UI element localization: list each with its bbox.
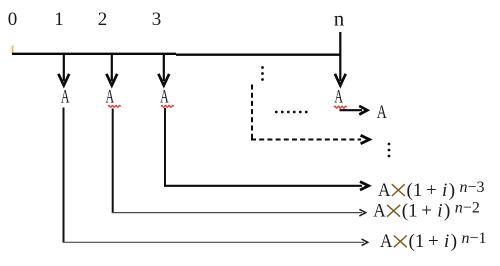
arrow down at 1	[58, 54, 69, 85]
red squiggle under An	[334, 106, 347, 108]
thin arrow from 2-line to formula n-2	[112, 209, 366, 216]
horizontal dots ......	[275, 111, 308, 114]
svg-text:A: A	[377, 102, 387, 123]
svg-text:A: A	[378, 180, 391, 201]
svg-text:A: A	[106, 87, 115, 108]
svg-text:+: +	[428, 231, 439, 252]
thick arrow from 3-line to formula n-3	[164, 182, 369, 190]
svg-text:2: 2	[98, 9, 108, 30]
svg-text:n: n	[334, 7, 345, 31]
right arrow from A(n)	[340, 106, 368, 115]
svg-text:1: 1	[54, 9, 64, 30]
thin arrow from 1-line to formula n-1	[63, 239, 368, 246]
timeline segment right	[176, 54, 341, 56]
svg-text:A: A	[160, 87, 169, 108]
arrow down at 3	[158, 54, 169, 85]
vertical ellipsis left	[261, 66, 264, 81]
formula A x (1+i)^(n-3)	[378, 179, 485, 201]
red squiggle under A2	[108, 105, 121, 107]
svg-text:): )	[444, 201, 450, 222]
svg-text:0: 0	[8, 9, 18, 30]
svg-text:n−3: n−3	[460, 179, 485, 196]
svg-text:i: i	[437, 201, 442, 222]
svg-text:+: +	[426, 180, 437, 201]
vertical line from A1	[63, 108, 65, 243]
svg-text:n−1: n−1	[462, 230, 487, 247]
svg-text:A: A	[61, 87, 70, 108]
svg-text:3: 3	[152, 9, 162, 30]
formula A x (1+i)^(n-2)	[373, 200, 480, 222]
svg-text:A: A	[373, 201, 386, 222]
red squiggle under A3	[161, 105, 174, 107]
svg-text:(1: (1	[407, 180, 423, 201]
svg-text:(1: (1	[409, 231, 425, 252]
svg-text:i: i	[442, 180, 447, 201]
dashed vertical line	[251, 85, 253, 140]
yellow tick at timeline start	[12, 46, 14, 54]
svg-text:A: A	[380, 231, 393, 252]
svg-text:(1: (1	[402, 201, 418, 222]
svg-text:n−2: n−2	[455, 200, 480, 217]
vertical ellipsis right	[388, 143, 391, 158]
vertical line from A3	[164, 108, 166, 185]
svg-text:i: i	[444, 231, 449, 252]
vertical line from A2	[112, 109, 114, 213]
timeline segment left	[12, 53, 176, 55]
svg-text:+: +	[421, 201, 432, 222]
svg-text:A: A	[334, 87, 343, 108]
arrow down at n (with tick above timeline)	[335, 32, 346, 85]
dashed horizontal arrow	[251, 135, 369, 143]
arrow down at 2	[106, 54, 117, 85]
svg-text:): )	[451, 231, 457, 252]
formula A x (1+i)^(n-1)	[380, 230, 487, 252]
svg-text:): )	[449, 180, 455, 201]
